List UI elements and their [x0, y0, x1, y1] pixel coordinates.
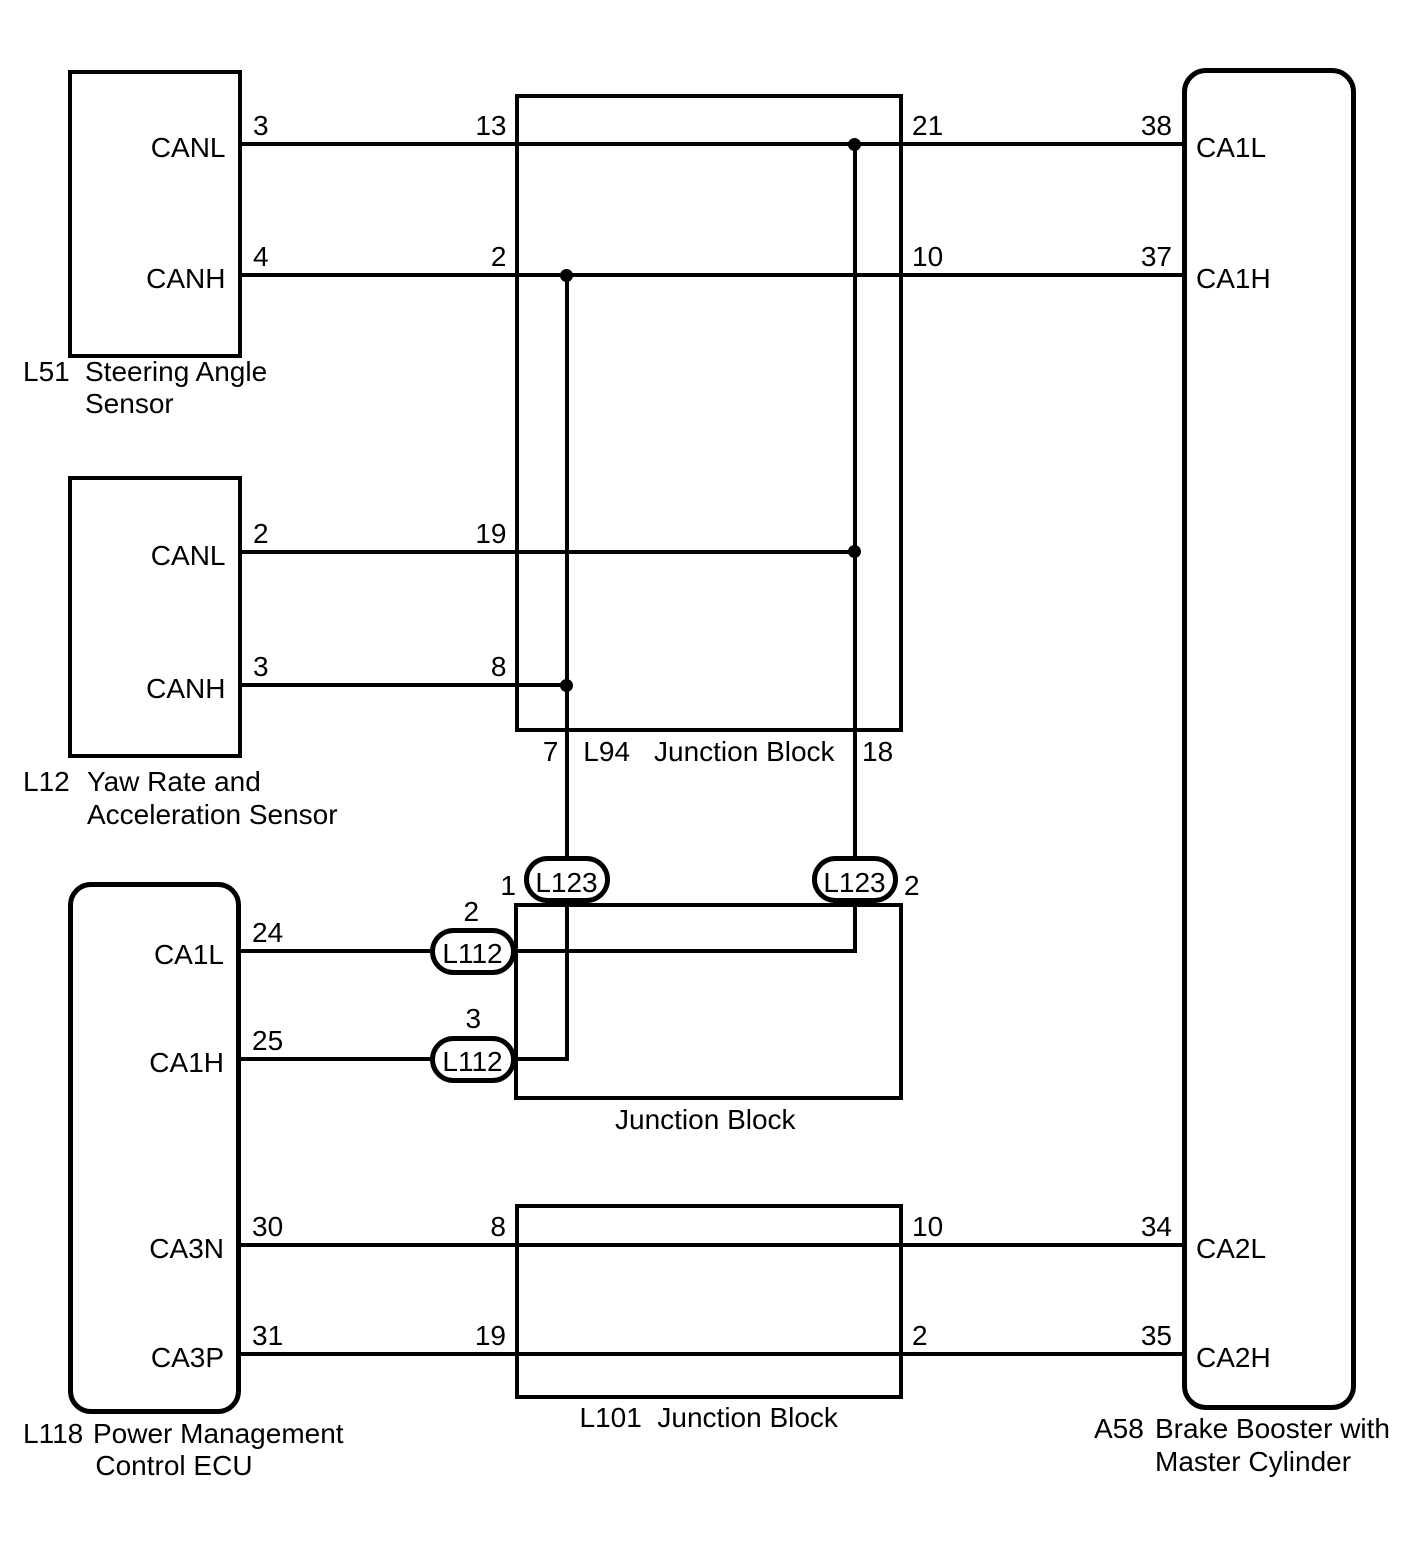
pin 7 L94 bottom [543, 738, 559, 766]
wire CANL L51 pin3 to A58 CA1L pin38 [240, 142, 1185, 146]
box A58 Brake Booster with Master Cylinder (rounded) [1182, 68, 1356, 1410]
label CA1L L118 [154, 941, 224, 969]
pin 2 L101 right [912, 1322, 928, 1350]
label CA3P L118 [151, 1344, 224, 1372]
pin 10 L94 right [912, 243, 943, 271]
wire CANL L12 pin2 to junction [240, 550, 857, 554]
label L12 description [87, 768, 261, 796]
box L51 Steering Angle Sensor [68, 70, 242, 359]
pin 25 L118 CA1H [252, 1027, 283, 1055]
pin 35 A58 CA2H [1141, 1322, 1172, 1350]
label L101 Junction Block [580, 1404, 642, 1432]
pin 31 L118 CA3P [252, 1322, 283, 1350]
label CA1L A58 [1196, 134, 1266, 162]
connector oval L123 pin2 [812, 856, 898, 903]
pin 1 L123 [500, 872, 516, 900]
pin 2 L123 [904, 872, 920, 900]
wire CA3P L118 pin31 to A58 CA2H pin35 [238, 1352, 1184, 1356]
junction dot CANL/CA1L [848, 138, 861, 151]
label L118 designator [23, 1420, 83, 1448]
connector oval L123 pin1 [524, 856, 610, 903]
wire CA1H L118 pin25 via L112 [238, 1057, 569, 1061]
pin 19 L94 left [475, 520, 506, 548]
wire CA3N L118 pin30 to A58 CA2L pin34 [238, 1243, 1184, 1247]
wire CANH L51 pin4 to A58 CA1H pin37 [240, 273, 1185, 277]
box L118 Power Management Control ECU (rounded) [68, 882, 241, 1414]
label middle Junction Block [615, 1106, 796, 1134]
box L12 Yaw Rate and Acceleration Sensor [68, 476, 242, 759]
wire vertical CA1H branch through L94 pin10/7 [565, 273, 569, 1061]
label CA2L A58 [1196, 1235, 1266, 1263]
pin 3 L12 CANH [253, 653, 269, 681]
label CA2H A58 [1196, 1344, 1271, 1372]
label CANH L51 [146, 265, 225, 293]
pin 38 A58 CA1L [1141, 112, 1172, 140]
pin 8 L101 left [490, 1213, 506, 1241]
pin 30 L118 CA3N [252, 1213, 283, 1241]
label CANL L51 [151, 134, 226, 162]
label CANH L12 [146, 675, 225, 703]
pin 18 L94 bottom [862, 738, 893, 766]
pin 34 A58 CA2L [1141, 1213, 1172, 1241]
box L94 Junction Block [515, 94, 903, 732]
wire CA1L L118 pin24 via L112 [238, 949, 857, 953]
pin 13 L94 left [475, 112, 506, 140]
box L101 Junction Block [515, 1204, 903, 1400]
label L51 designator [23, 358, 70, 386]
pin 2 L94 left [491, 243, 507, 271]
pin 3 L112 [466, 1005, 482, 1033]
junction dot CANH/CA1H [560, 269, 573, 282]
pin 21 L94 right [912, 112, 943, 140]
label L94 Junction Block [583, 738, 630, 766]
pin 4 L51 CANH [253, 243, 269, 271]
connector oval L112 pin3 [430, 1036, 516, 1083]
label CA1H L118 [149, 1049, 224, 1077]
connector oval L112 pin2 [430, 928, 516, 975]
wire CANH L12 pin3 to junction [240, 683, 569, 687]
pin 10 L101 right [912, 1213, 943, 1241]
label L118 description [93, 1420, 344, 1448]
pin 8 L94 left [491, 653, 507, 681]
pin 19 L101 left [475, 1322, 506, 1350]
junction dot L12 CANL [848, 545, 861, 558]
junction dot L12 CANH [560, 679, 573, 692]
pin 37 A58 CA1H [1141, 243, 1172, 271]
pin 3 L51 CANL [253, 112, 269, 140]
wire vertical CA1L branch through L94 pin21/18 [853, 142, 857, 953]
label L51 description [85, 358, 267, 386]
label CA3N L118 [149, 1235, 224, 1263]
pin 2 L12 CANL [253, 520, 269, 548]
label CANL L12 [151, 542, 226, 570]
pin 2 L112 [464, 898, 480, 926]
box middle Junction Block [514, 903, 903, 1100]
label A58 designator [1094, 1415, 1144, 1443]
pin 24 L118 CA1L [252, 919, 283, 947]
label L12 designator [23, 768, 70, 796]
label CA1H A58 [1196, 265, 1271, 293]
label A58 description [1155, 1415, 1390, 1443]
